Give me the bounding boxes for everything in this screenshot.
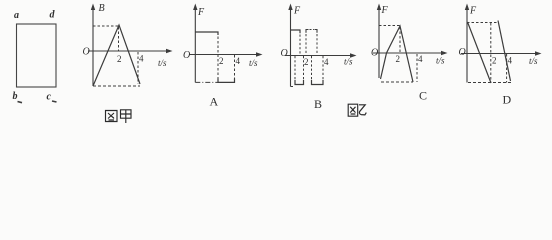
svg-text:O: O [371, 48, 378, 59]
speck under b [18, 102, 23, 103]
pulse1 top solid [291, 30, 301, 33]
svg-text:b: b [13, 91, 18, 102]
svg-text:2: 2 [219, 56, 224, 66]
sawtooth line 1 [468, 22, 492, 83]
svg-text:4: 4 [324, 57, 329, 67]
t axis [189, 54, 258, 56]
svg-text:2: 2 [396, 54, 401, 64]
F axis [291, 9, 294, 87]
F waveform triangle [381, 26, 414, 82]
svg-text:F: F [293, 6, 301, 17]
dashed vertical t=4 [506, 54, 508, 83]
svg-text:2: 2 [492, 56, 497, 66]
negative pulse bottom [218, 78, 235, 82]
coil rectangle abcd [17, 24, 57, 87]
sawtooth line 2 [498, 21, 511, 82]
svg-text:F: F [381, 5, 389, 16]
svg-text:t/s: t/s [249, 58, 258, 68]
svg-text:t/s: t/s [529, 56, 538, 66]
svg-text:O: O [183, 50, 190, 61]
svg-text:F: F [197, 7, 205, 18]
B waveform triangle [93, 25, 140, 86]
dashed vertical at t=4 [416, 54, 418, 82]
caption 图乙 (yi) [359, 105, 366, 115]
dashed vertical t=2 [490, 23, 492, 83]
pulse2 top dashed middle [310, 29, 315, 31]
svg-text:B: B [99, 3, 105, 14]
svg-text:A: A [210, 95, 219, 109]
B axis (vertical) [92, 9, 94, 86]
svg-text:D: D [503, 93, 512, 107]
svg-text:F: F [469, 6, 477, 17]
svg-text:O: O [281, 48, 288, 59]
peak dashed vertical [118, 27, 120, 51]
bottom dashed level [468, 82, 512, 84]
top dashed level [467, 22, 497, 24]
svg-text:O: O [83, 47, 90, 58]
svg-text:2: 2 [304, 57, 309, 67]
negative pulse 2 bottom [312, 80, 324, 85]
top dashed level [93, 25, 118, 27]
svg-text:4: 4 [418, 54, 423, 64]
svg-text:O: O [459, 47, 466, 58]
dashed vertical t=2 [217, 37, 219, 83]
peak dashed vertical [399, 27, 401, 53]
bottom dashed level [381, 81, 413, 83]
svg-text:c: c [47, 92, 52, 103]
bottom dashed level [93, 85, 140, 87]
caption 图甲 (tu) [106, 111, 118, 122]
F axis [378, 9, 380, 78]
svg-text:B: B [314, 97, 322, 111]
pulse2 dashed verticals [306, 34, 317, 55]
t axis [285, 55, 352, 57]
svg-text:t/s: t/s [158, 58, 167, 68]
t axis [461, 53, 537, 55]
caption 图乙 (tu) [348, 104, 358, 116]
svg-text:4: 4 [508, 56, 513, 66]
positive pulse top [195, 32, 218, 35]
caption 图甲 (jia) [121, 110, 132, 123]
svg-text:C: C [419, 89, 427, 103]
t axis (horizontal) [88, 50, 168, 52]
F axis [194, 9, 196, 82]
dashed vertical t=4 [234, 55, 236, 82]
F axis [466, 9, 468, 83]
svg-text:4: 4 [139, 54, 144, 64]
t axis [373, 52, 443, 54]
below-axis dashed verticals [295, 56, 323, 85]
dashed vertical at t=4 [137, 52, 139, 84]
pulse2 top corners solid [306, 30, 317, 33]
svg-text:4: 4 [236, 56, 241, 66]
svg-text:t/s: t/s [436, 56, 445, 66]
bottom dash-dot level [195, 81, 218, 83]
svg-text:t/s: t/s [344, 57, 353, 67]
negative pulse 1 bottom [295, 80, 304, 85]
top dashed level [379, 25, 400, 27]
pulse1 right dashed vertical [299, 35, 301, 56]
svg-text:2: 2 [117, 54, 122, 64]
speck under c [52, 101, 57, 102]
svg-text:a: a [14, 10, 19, 21]
